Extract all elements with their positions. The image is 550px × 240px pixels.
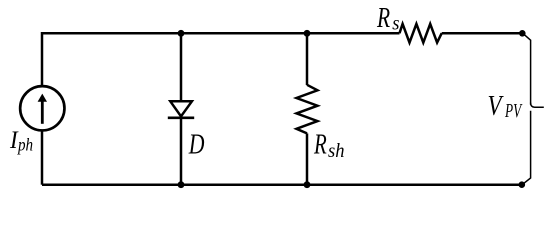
svg-text:R: R — [376, 1, 390, 34]
wire: diode branch upper — [180, 33, 183, 101]
wire: output branch top lead — [524, 35, 530, 105]
current source arrow shaft — [41, 101, 44, 124]
wire: top rail left of Rs — [42, 32, 400, 35]
wire: Rsh branch lower — [306, 133, 309, 184]
wire: diode branch lower — [180, 118, 183, 185]
junction dot Rsh bottom — [304, 181, 311, 188]
terminal dot top right — [519, 30, 526, 37]
wire: left branch upper segment — [41, 32, 44, 87]
svg-text:R: R — [313, 128, 327, 160]
svg-text:V: V — [488, 89, 505, 121]
diode D triangle — [170, 101, 192, 116]
svg-text:sh: sh — [328, 140, 344, 162]
resistor R_s — [400, 24, 442, 43]
svg-text:D: D — [188, 127, 205, 160]
output port brace tick — [531, 103, 544, 107]
wire: top rail right of Rs — [442, 32, 523, 35]
resistor R_sh zigzag — [297, 85, 318, 134]
svg-text:s: s — [392, 13, 399, 35]
diode D cathode bar — [168, 116, 194, 119]
svg-text:PV: PV — [504, 99, 522, 121]
wire: output branch bottom lead — [523, 111, 530, 184]
wire: bottom rail — [42, 183, 522, 186]
junction dot Rsh top — [304, 30, 311, 37]
wire: Rsh branch upper — [306, 33, 309, 85]
junction dot diode bottom — [178, 181, 185, 188]
current source I_ph circle — [20, 86, 64, 130]
terminal dot bottom right — [519, 181, 526, 188]
current source arrow head — [38, 94, 47, 102]
svg-text:ph: ph — [17, 134, 33, 155]
wire: left branch lower segment — [41, 130, 44, 185]
junction dot diode top — [178, 30, 185, 37]
